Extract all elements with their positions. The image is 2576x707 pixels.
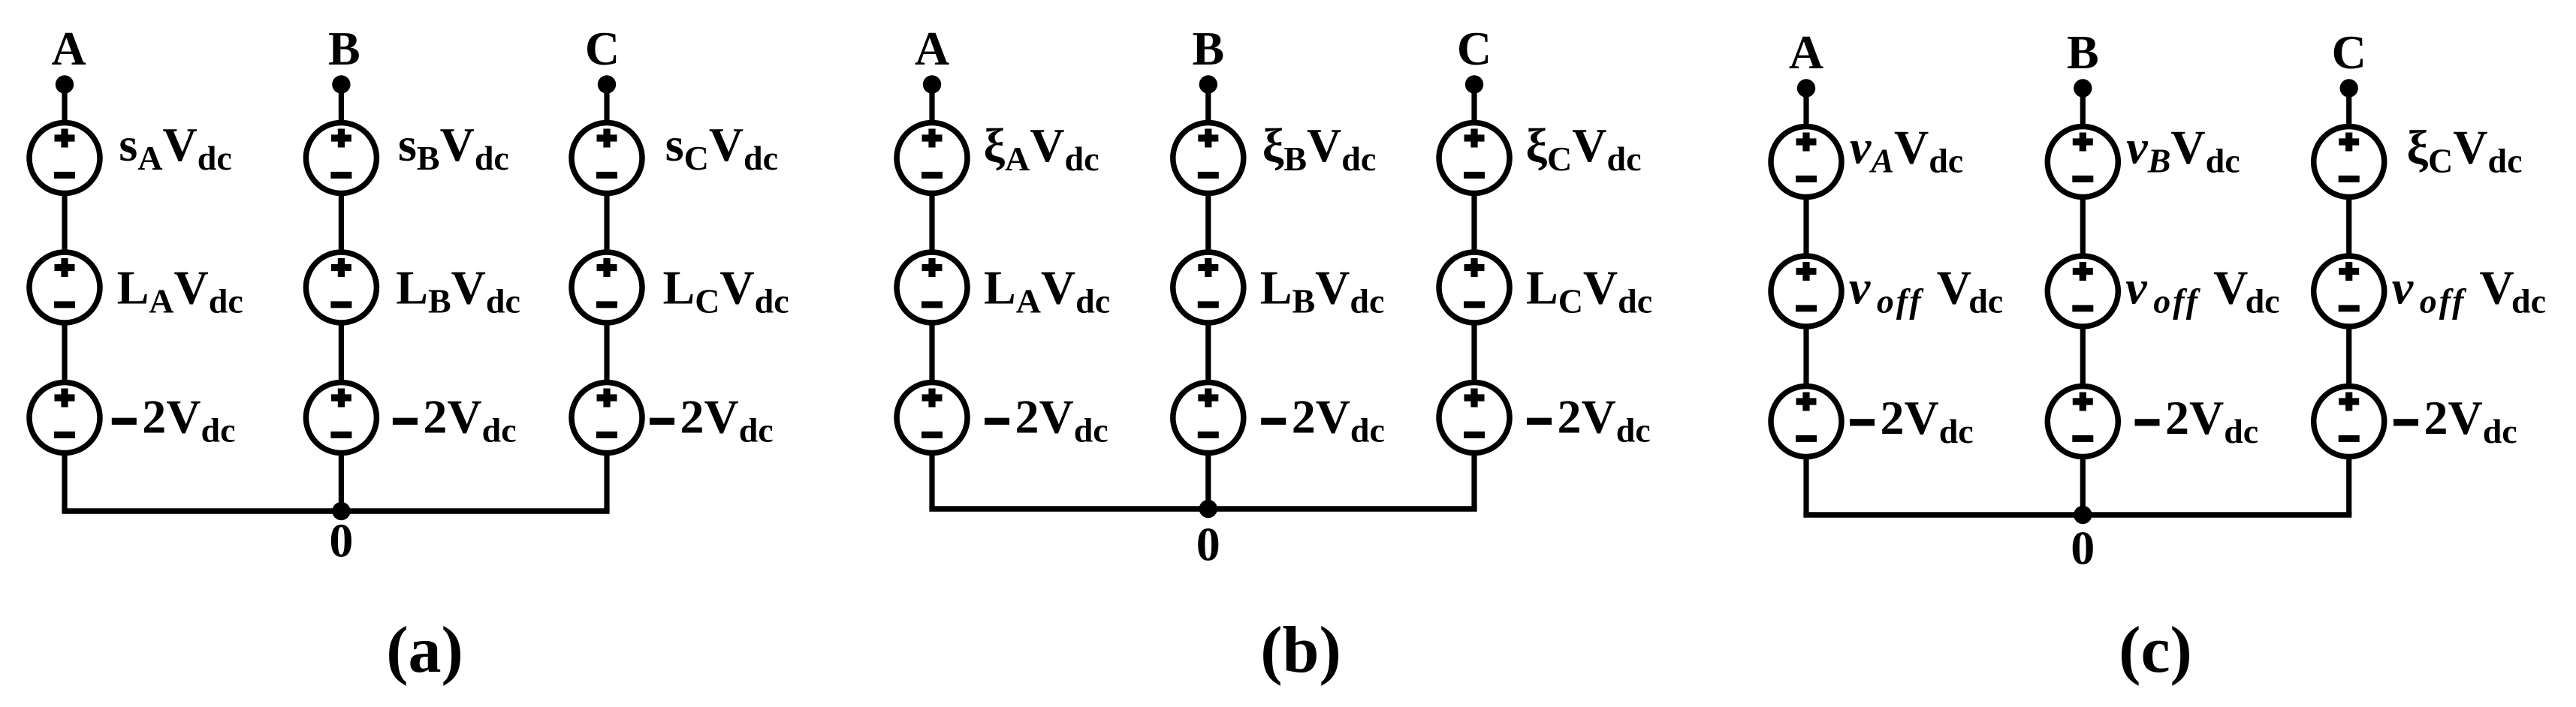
- svg-text:C: C: [2332, 26, 2366, 79]
- svg-text:0: 0: [1196, 518, 1220, 571]
- svg-text:(c): (c): [2119, 614, 2192, 687]
- svg-text:(b): (b): [1260, 614, 1341, 687]
- svg-text:C: C: [1457, 22, 1492, 75]
- svg-text:A: A: [51, 22, 86, 75]
- svg-text:C: C: [585, 22, 620, 75]
- svg-text:B: B: [328, 22, 360, 75]
- svg-text:B: B: [1192, 22, 1224, 75]
- svg-text:B: B: [2067, 26, 2099, 79]
- svg-text:A: A: [1789, 26, 1823, 79]
- svg-text:0: 0: [329, 514, 353, 567]
- svg-text:0: 0: [2071, 522, 2095, 575]
- svg-text:(a): (a): [386, 614, 463, 687]
- svg-text:A: A: [915, 22, 949, 75]
